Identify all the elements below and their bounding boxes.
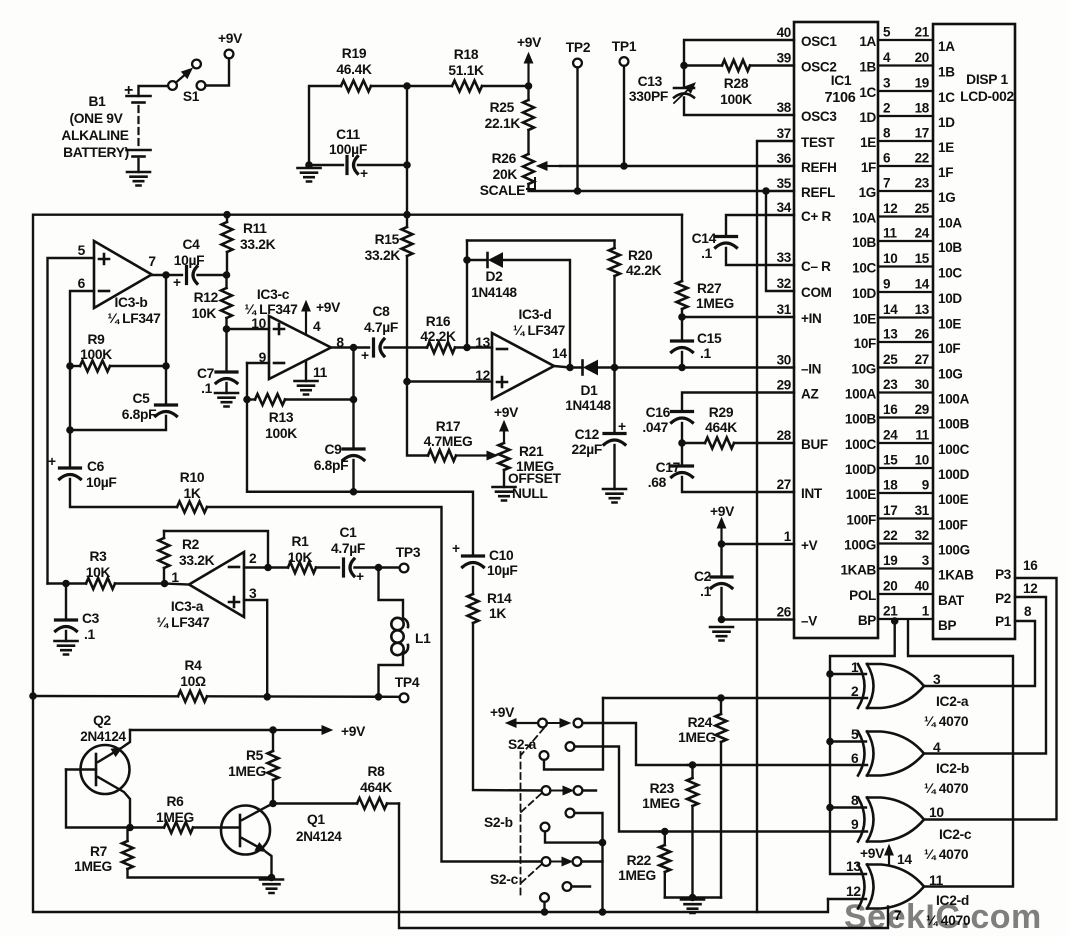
junction R3 left / C3 [63,580,70,587]
svg-text:8: 8 [851,793,859,808]
ground below Q1 [260,880,283,894]
wire R8 to IC2 pin7 rail [399,804,888,929]
svg-text:8: 8 [883,126,891,141]
svg-text:27: 27 [777,477,791,492]
svg-text:SeekIC.com: SeekIC.com [844,898,1042,936]
svg-text:1E: 1E [938,140,954,155]
svg-text:C2: C2 [694,569,712,584]
svg-text:R18: R18 [454,47,479,62]
IC3-c power pin4 +9V arrow [302,300,341,334]
svg-text:3: 3 [933,672,941,687]
svg-text:SCALE: SCALE [480,183,525,198]
wire gate-a output to P1 [924,621,1035,686]
svg-text:7: 7 [883,176,890,191]
svg-text:BAT: BAT [938,593,965,608]
svg-text:10G: 10G [938,367,963,382]
display DISP1 LCD-002 box [933,24,1015,639]
junction TP1 on REFH [621,163,628,170]
svg-text:100C: 100C [845,437,877,452]
wire -V pin26 [722,618,795,620]
svg-text:7106: 7106 [824,90,855,106]
svg-text:31: 31 [915,503,930,518]
svg-text:5: 5 [883,25,891,40]
wire S2-a throw1 to R23 line [583,723,689,765]
svg-text:1K: 1K [183,486,200,501]
switch S2-a [508,719,582,760]
junction D2 left node [464,257,471,264]
junction TP2 on REFL [574,188,581,195]
wire R15 node down to R17 [407,382,428,456]
svg-text:1KAB: 1KAB [938,568,974,583]
svg-text:C3: C3 [82,611,100,626]
svg-text:+9V: +9V [490,705,515,720]
wire pin5 input from lower left [48,258,95,584]
svg-text:¼ 4070: ¼ 4070 [924,781,969,796]
op-amp IC3-a 1/4 LF347 (points left) [156,551,257,630]
capacitor C14 [692,215,794,265]
svg-text:R2: R2 [182,537,200,552]
svg-text:1D: 1D [859,110,876,125]
svg-text:100K: 100K [265,426,297,441]
svg-text:C17: C17 [656,460,681,475]
svg-text:5: 5 [851,727,859,742]
svg-text:22.1K: 22.1K [485,116,521,131]
svg-text:6: 6 [851,751,859,766]
svg-text:100B: 100B [845,412,877,427]
svg-text:+9V: +9V [341,724,366,739]
svg-text:¼ LF347: ¼ LF347 [107,311,161,326]
svg-text:1F: 1F [861,160,876,175]
svg-text:100G: 100G [938,543,970,558]
svg-text:100D: 100D [845,462,877,477]
svg-text:R10: R10 [180,470,205,485]
svg-text:10C: 10C [938,266,962,281]
capacitor C3 [56,584,100,643]
svg-text:OFFSET: OFFSET [508,471,561,486]
capacitor C1 [331,525,400,584]
resistor R26 SCALE pot [480,130,535,198]
svg-text:1MEG: 1MEG [156,810,194,825]
svg-text:R21: R21 [519,444,544,459]
wire IC3-c output [331,346,369,348]
ground below C7 [215,393,238,407]
svg-text:.1: .1 [700,584,712,599]
junction TP4 node [375,694,382,701]
ground below C2 [710,627,733,641]
svg-text:10µF: 10µF [487,563,518,578]
transistor Q2 2N4124 [66,713,130,828]
IC1 left pin numbers and names [777,25,838,629]
junction S2-b node [599,839,606,846]
svg-text:+: + [360,166,368,181]
junction C15 on -IN line [679,364,686,371]
wire output node down [352,348,354,449]
svg-text:100B: 100B [938,417,970,432]
svg-text:11: 11 [915,428,929,443]
svg-text:R9: R9 [87,332,105,347]
inductor L1 [379,568,432,697]
svg-text:S1: S1 [183,89,200,104]
resistor R8 [273,764,399,809]
svg-text:17: 17 [915,126,929,141]
svg-text:+9V: +9V [218,31,243,46]
resistor R11 [222,215,276,275]
junction output/R2/R3 node [161,580,168,587]
DISP1 pin P3 [995,558,1038,582]
svg-text:C16: C16 [646,405,671,420]
svg-text:100C: 100C [938,442,970,457]
svg-text:–V: –V [801,614,817,629]
svg-text:P3: P3 [995,567,1012,582]
wire pin9 rail to C10 feed [247,400,473,556]
svg-text:39: 39 [777,51,791,66]
svg-text:IC2-c: IC2-c [939,827,972,842]
svg-text:BP: BP [938,618,956,633]
wire pin12 line to IC3-d [407,380,492,382]
svg-text:46.4K: 46.4K [336,62,372,77]
svg-text:IC1: IC1 [831,73,852,88]
+9V arrow to +V pin1 [710,504,735,544]
svg-text:1MEG: 1MEG [228,764,266,779]
svg-text:TP1: TP1 [612,39,637,54]
svg-text:3: 3 [249,586,257,601]
ground below rail [681,900,704,914]
wire pin3 input down to R4 line [244,600,267,697]
svg-text:7: 7 [148,254,156,269]
svg-text:37: 37 [777,126,791,141]
svg-text:2N4124: 2N4124 [296,829,342,844]
svg-text:C10: C10 [489,548,514,563]
svg-text:Q2: Q2 [93,713,111,728]
junction REFL to COM link [763,188,770,195]
svg-text:24: 24 [915,226,930,241]
junction C5 rail left [67,427,74,434]
svg-text:8: 8 [1024,604,1032,619]
junction R13 left [244,396,251,403]
resistor R22 [618,832,670,898]
capacitor C6 [48,454,177,507]
IC2 pin14 +9V arrow [860,845,912,867]
svg-text:1: 1 [922,604,930,619]
resistor R2 [159,531,215,584]
IC IC1 7106 box [794,22,878,638]
svg-text:4: 4 [883,50,891,65]
junction C11 left / ground [306,162,313,169]
svg-text:3: 3 [883,76,891,91]
svg-text:+9V: +9V [494,405,519,420]
R26 wiper arrow from REFH line [547,165,560,167]
svg-text:1MEG: 1MEG [678,730,716,745]
svg-text:1N4148: 1N4148 [471,285,517,300]
svg-text:26: 26 [777,605,792,620]
wire R19 to R18 [371,85,452,87]
capacitor C5 [70,391,177,430]
wire R27 to +IN junction [681,309,683,317]
svg-text:31: 31 [777,302,792,317]
+9V arrow top right [517,35,542,86]
svg-text:1: 1 [784,529,792,544]
wire S2-c throw stub [582,860,603,862]
svg-text:36: 36 [777,151,792,166]
svg-text:TEST: TEST [801,135,835,150]
wire output vertical to C5 [165,275,167,404]
svg-text:4.7MEG: 4.7MEG [424,434,473,449]
svg-text:C9: C9 [324,442,342,457]
wire IC3-d output to D1 [554,366,583,368]
wire S2-b lower contact [545,832,603,843]
svg-text:¼ 4070: ¼ 4070 [924,847,969,862]
resistor R10 [177,470,207,513]
junction C11 right on node408 [404,162,411,169]
svg-text:R15: R15 [375,232,400,247]
junction R9 right on output vertical [163,363,170,370]
junction node408 on border [404,211,411,218]
svg-text:R27: R27 [697,281,722,296]
wire OSC2 to R28 [684,64,722,66]
svg-text:2: 2 [851,684,859,699]
junction Q1 emitter ground node [268,874,275,881]
wire R18 to +9V node [482,85,529,87]
svg-text:¼ 4070: ¼ 4070 [924,714,969,729]
svg-text:10F: 10F [854,336,876,351]
test point TP4 [395,675,420,702]
junction R20/C12 on -IN [611,364,618,371]
svg-text:5: 5 [78,243,86,258]
svg-text:464K: 464K [705,420,737,435]
resistor R16 [420,314,456,353]
junction BUF node [679,440,686,447]
svg-text:BATTERY): BATTERY) [63,145,129,160]
junction R16/D2 node [464,344,471,351]
svg-text:10µF: 10µF [86,475,117,490]
svg-text:2: 2 [883,101,890,116]
svg-text:2N4124: 2N4124 [80,729,126,744]
diode D1 1N4148 [565,361,611,414]
svg-text:10C: 10C [852,261,876,276]
junction pin3 on R4 line [264,694,271,701]
wire gate-c input8 [830,806,866,808]
ground OFFSET NULL [493,471,562,501]
svg-text:9: 9 [922,478,929,493]
wire AZ pin29 loop [682,393,794,411]
svg-text:10F: 10F [938,341,960,356]
svg-text:C14: C14 [692,231,717,246]
junction +V node [718,541,725,548]
svg-text:13: 13 [883,327,898,342]
svg-text:R22: R22 [627,853,652,868]
junction C9 bottom rail [350,488,357,495]
svg-text:1A: 1A [859,34,876,49]
junction Q2 emitter/R6/R7 node [127,824,134,831]
svg-text:R23: R23 [650,781,675,796]
wire R19 left leg to ground node [309,86,341,165]
svg-text:R24: R24 [688,715,713,730]
svg-text:40: 40 [915,579,929,594]
svg-text:30: 30 [915,377,929,392]
junction R24 top [718,695,725,702]
svg-text:10K: 10K [192,306,217,321]
svg-text:S2-a: S2-a [508,737,537,752]
svg-text:16: 16 [883,402,898,417]
junction TP3 node [375,564,382,571]
svg-text:REFH: REFH [801,160,837,175]
resistor R9 [70,332,166,372]
svg-text:26: 26 [915,327,930,342]
junction BP pin21 node [891,618,898,625]
svg-text:10A: 10A [852,211,876,226]
svg-text:21: 21 [883,604,898,619]
svg-text:+: + [124,82,133,99]
svg-text:10K: 10K [288,550,313,565]
svg-text:38: 38 [777,100,792,115]
svg-text:42.2K: 42.2K [420,329,456,344]
svg-text:12: 12 [846,884,861,899]
switch S2-b [484,786,596,831]
ground below C12 [603,489,626,503]
svg-text:20K: 20K [493,167,518,182]
switch S1 [168,60,205,104]
svg-text:.1: .1 [201,381,213,396]
svg-text:DISP 1: DISP 1 [966,72,1008,87]
wire REFL-COM link vertical [766,191,794,291]
svg-text:23: 23 [883,377,898,392]
svg-text:C15: C15 [697,331,722,346]
wire gate-a in2 line from S2 [603,697,867,699]
junction +9V rail node [270,727,277,734]
junction pin2/R2/R1 node [265,564,272,571]
svg-text:C+ R: C+ R [801,209,831,224]
svg-text:R29: R29 [709,405,734,420]
svg-text:35: 35 [777,176,792,191]
svg-text:1MEG: 1MEG [696,296,734,311]
svg-text:22: 22 [915,151,929,166]
pot R21 1MEG with +9V arrow [494,405,554,487]
svg-text:22µF: 22µF [571,442,602,457]
svg-text:10Ω: 10Ω [180,674,206,689]
+9V arrow right [273,724,366,739]
svg-text:16: 16 [1023,558,1038,573]
svg-text:1KAB: 1KAB [840,563,876,578]
R17 wiper arrow into R21 [456,454,487,456]
wire R10 to S2-c feed [207,507,542,862]
junction -V node [718,616,725,623]
wire R29 to pin28 [734,442,794,444]
svg-text:33.2K: 33.2K [179,553,215,568]
wire gate-a input1 [830,673,866,675]
svg-text:IC3-a: IC3-a [171,599,204,614]
svg-text:Q1: Q1 [307,812,325,827]
capacitor C8 [361,304,427,363]
svg-text:34: 34 [777,200,792,215]
svg-text:+9V: +9V [316,300,341,315]
svg-text:R28: R28 [724,76,749,91]
wire gate-d input12 from border [828,898,866,900]
svg-text:100K: 100K [80,347,112,362]
svg-text:REFL: REFL [801,185,835,200]
capacitor C4 [173,237,227,290]
capacitor C16 [642,405,692,443]
resistor R6 [130,794,238,833]
wire pin6 input vertical [70,291,94,366]
junction +IN node [679,314,686,321]
svg-text:IC2-a: IC2-a [936,694,969,709]
transistor Q1 2N4124 [221,804,342,878]
svg-text:32: 32 [777,276,791,291]
svg-text:100D: 100D [938,467,970,482]
wire S2-b middle contact down [575,813,603,843]
svg-text:.68: .68 [648,475,667,490]
battery B1 [124,82,168,172]
resistor R27 [677,281,734,311]
svg-text:33.2K: 33.2K [365,248,401,263]
XOR gate IC2-d 1/4 4070 [846,859,971,928]
wire BP net to gate inputs [830,621,895,874]
resistor R25 [485,86,534,131]
svg-text:P1: P1 [995,614,1012,629]
junction node R19/R18/C11 branch [404,83,411,90]
wire S2-a contact3 up to R24 line [544,698,603,770]
wire Q2 base loop [66,770,130,828]
svg-text:COM: COM [801,285,832,300]
svg-text:14: 14 [552,346,567,361]
svg-text:R6: R6 [166,794,184,809]
svg-text:.1: .1 [84,627,96,642]
svg-text:1C: 1C [938,90,955,105]
wire gate-c in9 line [660,830,867,832]
capacitor C9 [314,442,364,492]
junction R13 right [350,396,357,403]
junction output node 7 [163,272,170,279]
svg-text:1G: 1G [859,185,876,200]
svg-text:+: + [618,419,626,434]
junction R15 on pin12 line [404,378,411,385]
svg-text:R8: R8 [367,764,385,779]
svg-text:14: 14 [897,852,912,867]
svg-text:+IN: +IN [801,311,821,326]
wire gate-b in6 line [688,764,867,766]
resistor R12 [192,275,232,329]
svg-text:21: 21 [915,25,930,40]
DISP1 pin P2 [995,581,1037,606]
svg-text:100F: 100F [938,518,968,533]
svg-text:C13: C13 [638,74,663,89]
svg-text:19: 19 [915,76,929,91]
capacitor C10 [452,541,518,594]
wire Q2 collector to +9V rail [130,729,273,731]
svg-text:100E: 100E [938,492,969,507]
svg-text:¼ LF347: ¼ LF347 [156,615,210,630]
wire R2 feedback top [164,531,268,568]
wire gate-d output to BP [908,621,1013,887]
wire OSC1 pin40 loop [684,40,794,66]
svg-text:R5: R5 [246,748,264,763]
svg-text:C7: C7 [197,366,215,381]
svg-text:TP2: TP2 [566,40,591,55]
op-amp IC3-d 1/4 LF347 [475,307,567,399]
svg-text:12: 12 [883,201,897,216]
svg-text:1F: 1F [938,165,953,180]
ground below C3 [55,641,78,655]
wire border loop top right corner down to -IN [681,215,683,281]
svg-text:10E: 10E [853,312,876,327]
resistor R19 [336,46,372,92]
svg-text:C5: C5 [132,391,150,406]
resistor R13 [247,394,354,441]
svg-text:19: 19 [883,553,897,568]
wire S2-c middle stub [572,885,591,887]
svg-text:R16: R16 [426,314,451,329]
ground below C11 [298,168,321,182]
